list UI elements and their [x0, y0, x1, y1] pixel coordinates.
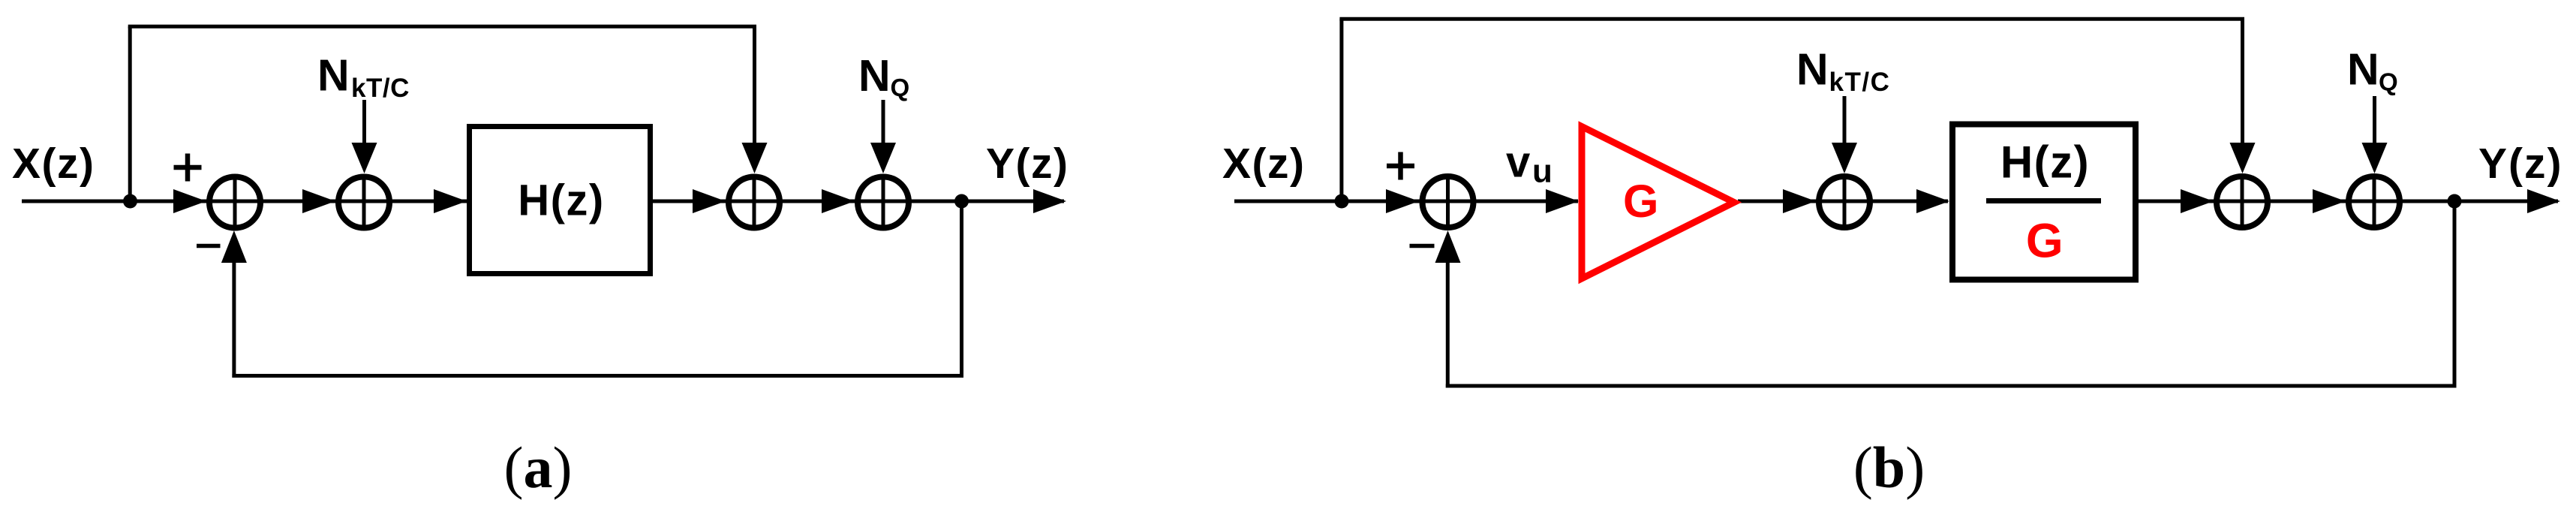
summer S6 (b) — [1819, 174, 1870, 230]
down arrow feedforward into S7 (b) — [2230, 143, 2256, 173]
wire: feedback vertical from output node down (a) — [960, 201, 963, 376]
node A input junction dot (a) — [123, 194, 137, 209]
wire: N_Q drop into summer S8 (b) — [2373, 96, 2376, 147]
arrow into amp G (b) — [1546, 189, 1579, 213]
svg-text:N: N — [2347, 45, 2379, 95]
svg-text:(a): (a) — [504, 435, 573, 500]
wire: feedback bottom horizontal (b) — [1446, 384, 2457, 388]
svg-text:kT/C: kT/C — [1829, 68, 1891, 97]
up arrow feedback into S1 (a) — [221, 230, 247, 263]
svg-text:kT/C: kT/C — [351, 74, 410, 103]
down arrow N_Q into S4 (a) — [870, 143, 896, 173]
summer S2 (a) — [338, 174, 389, 230]
down arrow N_kT/C into S6 (b) — [1832, 143, 1857, 173]
wire: top feedforward horizontal (b) — [1339, 17, 2244, 21]
arrow into summer S3 (a) — [693, 189, 726, 213]
down arrow N_kT/C into S2 (a) — [352, 143, 377, 173]
svg-text:N: N — [1796, 45, 1829, 95]
up arrow feedback into S5 (b) — [1435, 230, 1461, 263]
svg-text:Y(z): Y(z) — [986, 140, 1069, 188]
fraction bar in block (b) — [1986, 198, 2101, 203]
minus sign at S5 (b) — [1410, 244, 1435, 248]
svg-text:v: v — [1506, 138, 1530, 187]
svg-text:X(z): X(z) — [1222, 140, 1305, 188]
arrowheads (a) — [173, 143, 1066, 263]
node B output junction dot (a) — [954, 194, 969, 209]
arrow into summer S7 (b) — [2181, 189, 2214, 213]
svg-text:G: G — [2026, 214, 2064, 268]
wire: N_Q drop into summer S4 (a) — [882, 100, 885, 147]
wire: top feedforward horizontal (a) — [128, 25, 756, 29]
node C input junction dot (b) — [1335, 194, 1349, 209]
arrow into summer S8 (b) — [2313, 189, 2346, 213]
wire: main signal path left of H(z) box (a) — [22, 200, 467, 203]
node D output junction dot (b) — [2448, 194, 2462, 209]
svg-text:N: N — [317, 51, 350, 101]
summer S1 (a) — [209, 174, 260, 230]
H(z)/G block (b) — [1952, 125, 2136, 280]
wire: feedforward drop into summer S7 (b) — [2241, 19, 2244, 147]
summer S7 (b) — [2217, 174, 2268, 230]
arrow into summer S4 (a) — [822, 189, 855, 213]
arrowheads (b) — [1386, 143, 2560, 263]
svg-text:Q: Q — [2379, 68, 2398, 96]
wire: feedback vertical up into summer S1 (a) — [232, 261, 236, 378]
wire: N_kT/C drop into summer S6 (b) — [1843, 96, 1847, 147]
minus sign at S1 (a) — [197, 244, 221, 248]
svg-text:N: N — [858, 51, 891, 101]
wire: input feedforward vertical from node A up (a) — [128, 26, 132, 201]
svg-text:H(z): H(z) — [518, 176, 605, 225]
arrow into summer S5 (b) — [1386, 189, 1419, 213]
arrow into summer S2 (a) — [302, 189, 335, 213]
svg-text:(b): (b) — [1853, 435, 1925, 500]
wire: feedforward drop into summer S3 (a) — [753, 26, 756, 147]
arrow into H(z)/G box (b) — [1916, 189, 1949, 213]
wire: N_kT/C drop into summer S2 (a) — [362, 100, 366, 147]
wire: main signal path right of H(z) box (a) — [653, 200, 1064, 203]
plus sign at S5 (b) — [1387, 152, 1414, 180]
wire: amp G output to H(z)/G box (b) — [1738, 200, 1948, 203]
svg-text:Y(z): Y(z) — [2478, 140, 2562, 188]
down arrow N_Q into S8 (b) — [2362, 143, 2388, 173]
H(z) block (a) — [470, 127, 651, 274]
svg-text:G: G — [1623, 176, 1658, 227]
svg-text:H(z): H(z) — [2000, 137, 2090, 188]
summer S4 (a) — [858, 174, 909, 230]
summer S3 (a) — [729, 174, 780, 230]
wire: box output to Y(z) (b) — [2139, 200, 2558, 203]
arrow into H(z) box (a) — [434, 189, 467, 213]
svg-text:Q: Q — [891, 74, 910, 101]
output arrow Y(z) (a) — [1033, 189, 1066, 213]
plus sign at S1 (a) — [174, 154, 202, 182]
op-amp G amplifier triangle (b) — [1582, 127, 1734, 279]
wire: feedback vertical from output node down (b) — [2453, 201, 2457, 386]
wire: feedback vertical up into summer S5 (b) — [1446, 261, 1450, 388]
arrow into summer S6 (b) — [1783, 189, 1816, 213]
wire: input feedforward vertical from node C up (b) — [1339, 19, 1343, 201]
summer S5 (b) — [1423, 174, 1474, 230]
down arrow feedforward into S3 (a) — [742, 143, 768, 173]
summer S8 (b) — [2349, 174, 2400, 230]
arrow into summer S1 (a) — [173, 189, 206, 213]
svg-text:u: u — [1532, 153, 1553, 190]
wire: feedback bottom horizontal (a) — [232, 374, 963, 378]
svg-text:X(z): X(z) — [12, 140, 95, 188]
output arrow Y(z) (b) — [2527, 189, 2560, 213]
wire: input segment through S1 to amp G (b) — [1234, 200, 1578, 203]
